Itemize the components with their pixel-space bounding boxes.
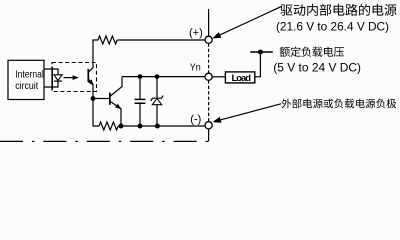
label: external supply / load supply negative <box>281 99 396 109</box>
transistor Q1: base bar <box>109 93 111 105</box>
svg-text:(5 V to 24 V DC): (5 V to 24 V DC) <box>273 61 361 75</box>
capacitor C1 riser <box>139 77 141 100</box>
leader arrow to (+) terminal <box>218 6 283 36</box>
zener D1 lower lead <box>156 105 158 126</box>
phototransistor emitter with arrow <box>89 79 93 98</box>
svg-text:(-): (-) <box>190 114 201 126</box>
dashed terminal strip (+) to Yn <box>208 43 210 73</box>
node A: junction dot (emitter / base of Q1 / pulldown) <box>91 96 96 101</box>
light arrow from LED to phototransistor <box>64 77 75 79</box>
node: Q1 emitter junction on bottom rail <box>119 124 124 129</box>
zener D1 cathode bar with wings <box>151 96 163 101</box>
wire: output rail (collector to Yn terminal) <box>122 76 205 78</box>
svg-text:Yn: Yn <box>190 61 201 73</box>
module boundary chain line (bottom, dash-dot) <box>0 140 209 142</box>
node: dot on tick <box>258 50 263 55</box>
capacitor C1 plates <box>135 99 146 103</box>
wire: top-left corner, vertical drop to phototransistor collector <box>93 40 98 68</box>
wire: Yn terminal to Load <box>212 76 225 78</box>
zener D1 anode triangle <box>152 98 161 104</box>
leader arrow to (-) terminal <box>218 104 282 121</box>
node: rail junction at zener D1 <box>155 74 160 79</box>
module boundary line (solid, below (-)) <box>208 129 210 142</box>
module boundary line (solid, above (+)) <box>208 9 210 36</box>
wire: stub from Internal circuit box to LED anode <box>45 69 59 75</box>
phototransistor collector <box>89 67 94 72</box>
wire: bottom rail to (-) terminal <box>118 125 205 127</box>
dashed terminal strip Yn to (-) <box>208 80 210 121</box>
Q1 emitter with arrow, down to bottom rail <box>110 102 121 127</box>
svg-text:(21.6 V to 26.4 V DC): (21.6 V to 26.4 V DC) <box>276 19 389 33</box>
Q1 collector riser to output rail <box>110 77 122 96</box>
resistor R1 (top, zigzag) <box>98 36 117 44</box>
resistor R2 (bottom pulldown, zigzag) <box>99 122 118 130</box>
wire: LED cathode back to Internal circuit box <box>45 81 59 87</box>
label: power for internal drive circuit <box>280 4 396 16</box>
wire: R1 to (+) terminal <box>117 39 205 41</box>
svg-text:circuit: circuit <box>15 81 38 92</box>
wire: junction down to bottom rail <box>93 99 99 127</box>
label: rated load voltage <box>280 46 344 56</box>
tick: rated load voltage measurement bar <box>250 51 273 53</box>
optocoupler U1 box left edge (solid) <box>51 67 53 90</box>
phototransistor U1b: base bar <box>87 69 89 82</box>
terminal (+) <box>205 36 212 43</box>
svg-text:Internal: Internal <box>15 70 44 81</box>
terminal Yn <box>205 73 212 80</box>
wire: Load to external supply riser <box>255 52 261 77</box>
zener D1 upper lead <box>156 77 158 99</box>
Internal circuit box <box>8 60 44 99</box>
load box <box>225 72 254 83</box>
wire: junction to Q1 base <box>93 98 110 100</box>
node: C1 junction on bottom rail <box>138 124 143 129</box>
LED D2 (optocoupler emitter diode) <box>54 75 62 81</box>
svg-text:(+): (+) <box>189 27 203 39</box>
node: rail junction at capacitor C1 <box>138 74 143 79</box>
terminal (-) <box>205 122 212 129</box>
optocoupler U1 dashed box <box>52 63 97 92</box>
svg-text:Load: Load <box>232 73 252 84</box>
capacitor C1 lower lead <box>139 103 141 126</box>
node: D1 junction on bottom rail <box>155 124 160 129</box>
